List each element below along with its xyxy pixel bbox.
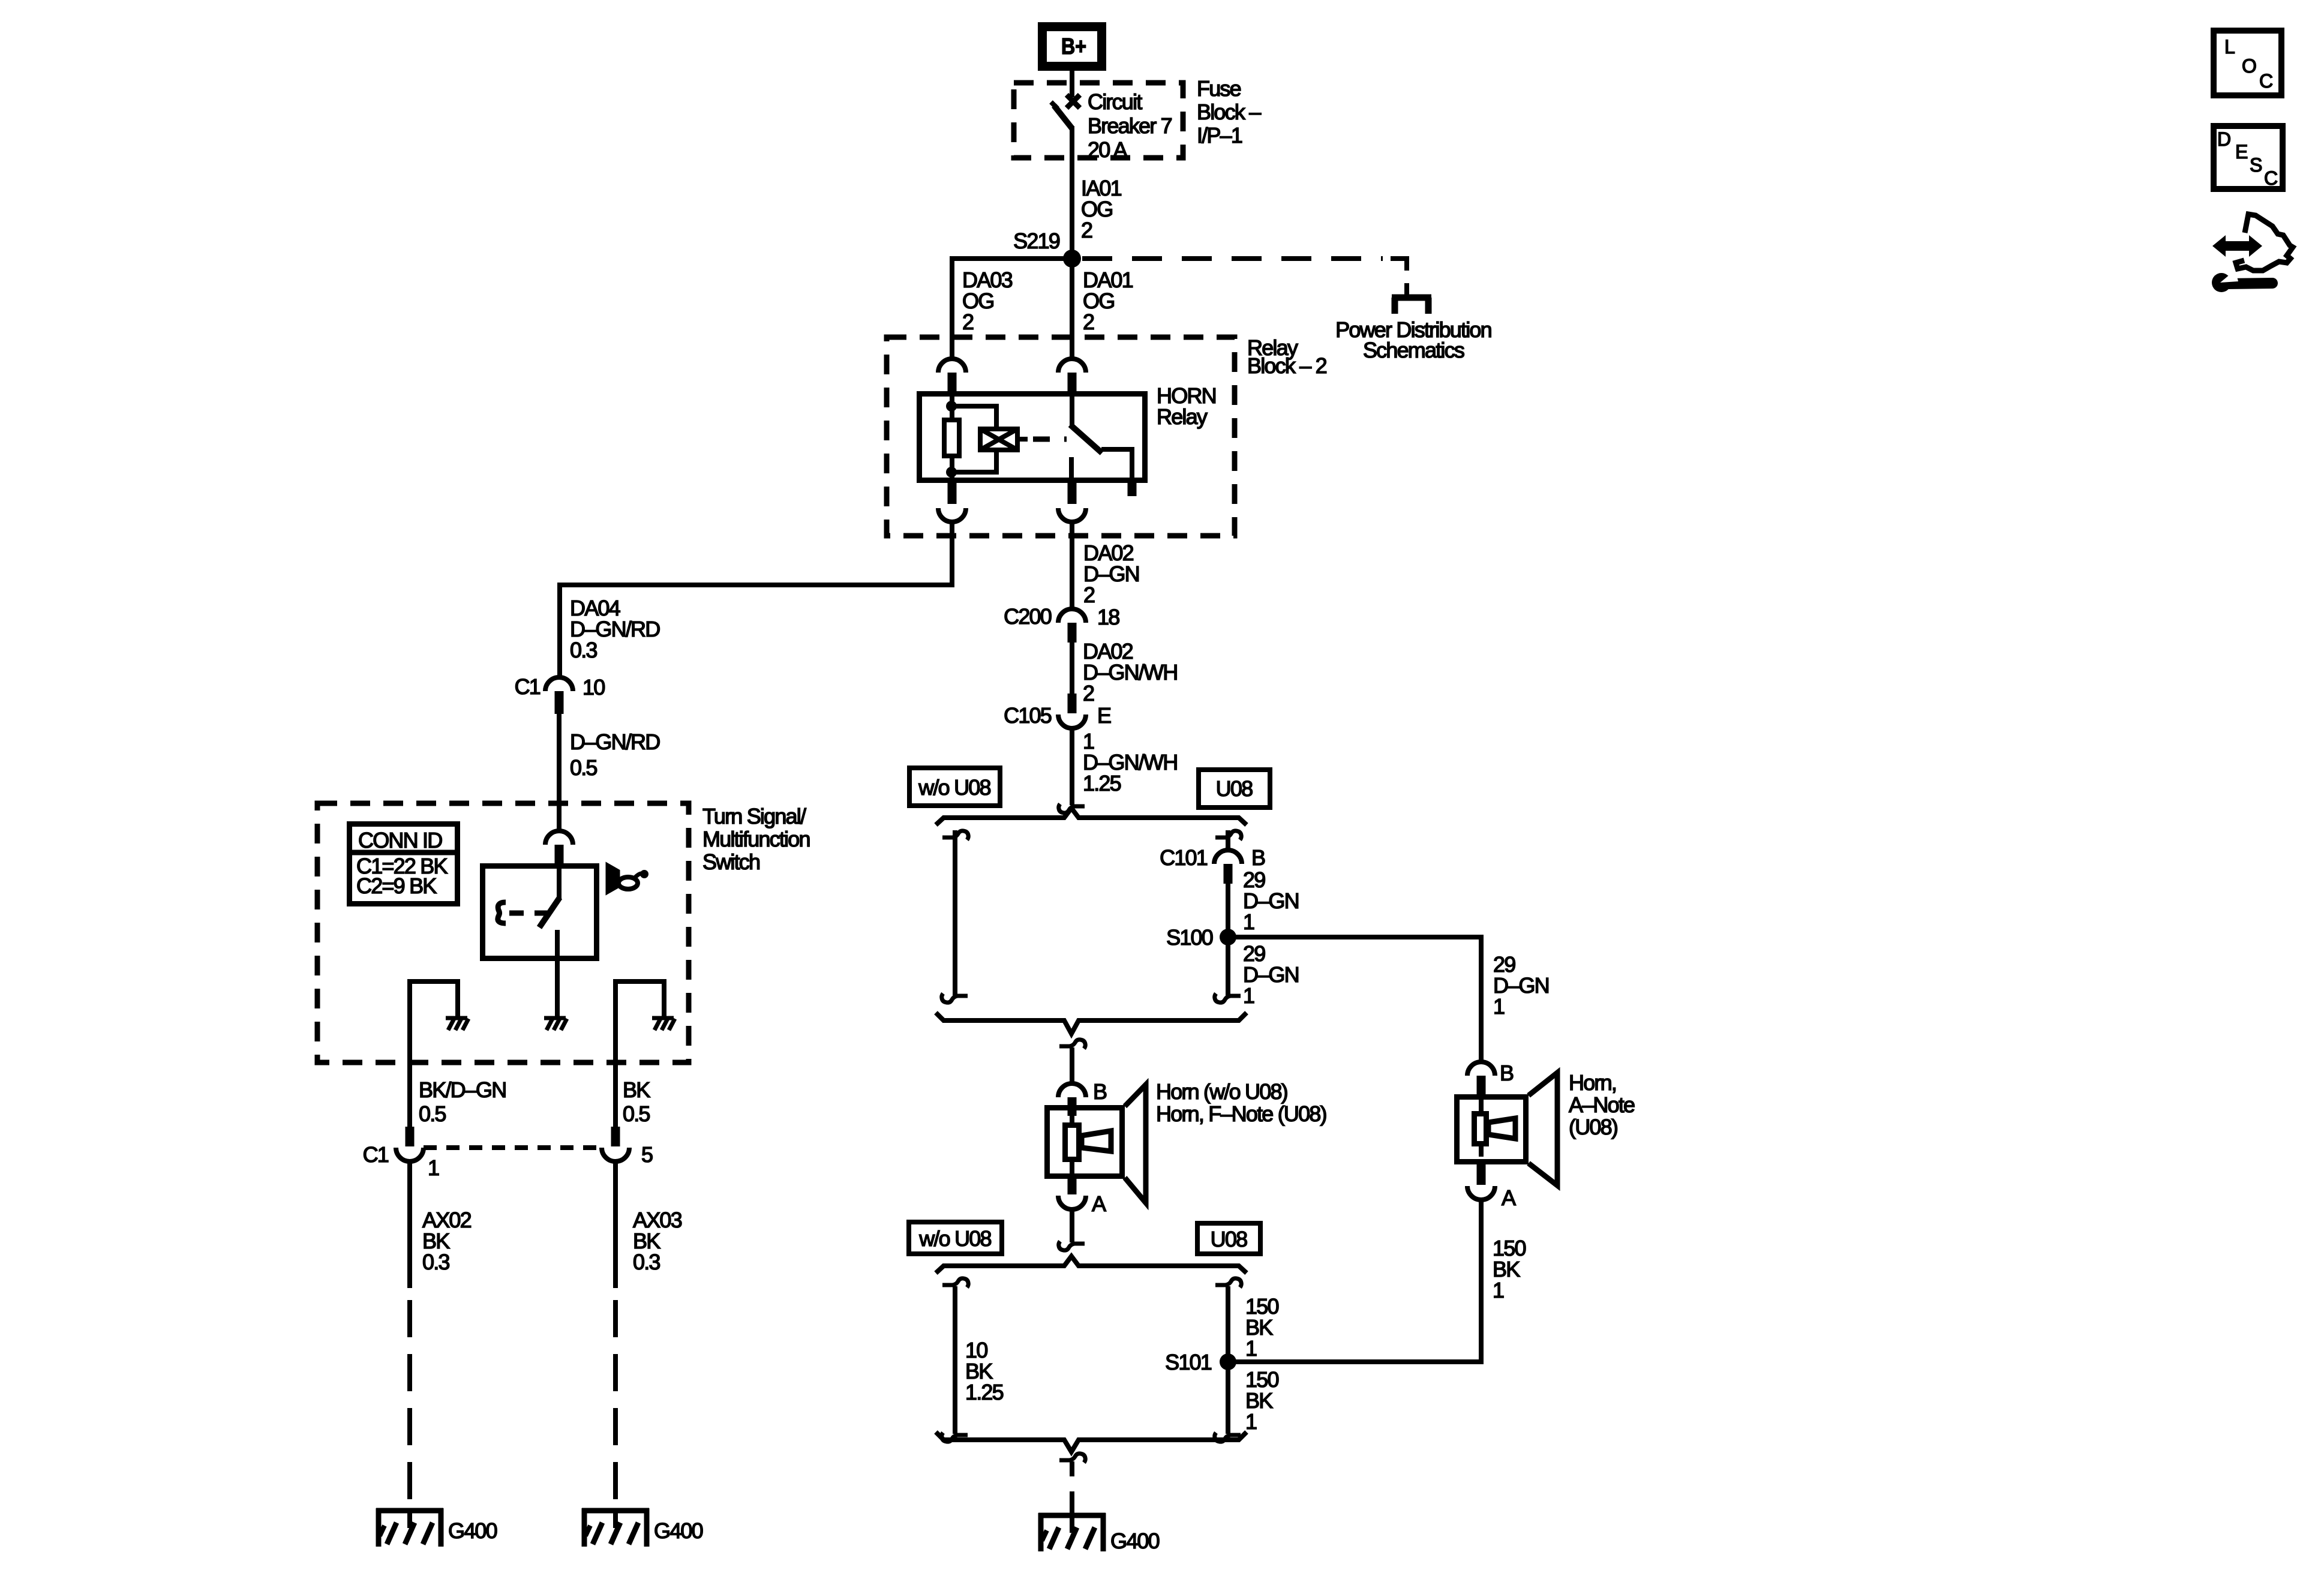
svg-text:BK/D–GN: BK/D–GN: [419, 1077, 506, 1102]
svg-text:1: 1: [1245, 1336, 1257, 1361]
option overbrace lower: [936, 1256, 1247, 1273]
power distribution reference fork: [1392, 298, 1431, 314]
svg-text:C200: C200: [1004, 604, 1052, 629]
service icon wrench: [2212, 270, 2272, 292]
svg-text:A: A: [1502, 1185, 1516, 1210]
wire horn A down: [1070, 1209, 1074, 1242]
internal ground left: [446, 1018, 469, 1030]
splice S101: [1220, 1353, 1236, 1370]
turn signal switch label: [702, 804, 810, 874]
option start curl right lower: [1215, 1278, 1241, 1287]
relay actuating dashed link: [1033, 437, 1067, 442]
power distribution schematics label: [1335, 317, 1491, 362]
option start curl left: [942, 831, 968, 840]
wire S101 down: [1226, 1362, 1230, 1434]
wire end curl: [1059, 804, 1085, 813]
wire S100 to right horn: [1228, 937, 1481, 1062]
wire C200 to C105: [1070, 643, 1074, 696]
svg-text:2: 2: [962, 310, 974, 334]
connector C105 pin E: [1004, 694, 1111, 728]
circuit breaker value label: [1088, 89, 1172, 162]
dashed connector link C1: [424, 1145, 602, 1150]
connector C1 pin 10: [515, 674, 605, 714]
ground G400 center: [1038, 1513, 1106, 1551]
svg-text:1: 1: [1245, 1409, 1257, 1434]
wire switch to internal ground: [555, 959, 560, 1018]
wire label 10 BK 1.25: [965, 1338, 1004, 1404]
wire to G400 center: [1070, 1461, 1074, 1476]
horn A-Note right: [1457, 1073, 1558, 1185]
horn label: [1156, 1079, 1326, 1126]
wire B+ to fuse block: [1070, 69, 1074, 97]
wire label D-GN/RD 0.5: [570, 730, 660, 780]
wire label 29 D-GN 1 upper: [1243, 867, 1299, 934]
svg-text:0.5: 0.5: [419, 1101, 446, 1126]
option end curl left: [942, 993, 968, 1002]
CONN ID table: [349, 824, 458, 904]
option wire 10 BK: [953, 1286, 957, 1434]
relay coil parallel loop: [952, 406, 996, 428]
wire S100 down: [1226, 937, 1230, 996]
svg-text:Breaker 7: Breaker 7: [1088, 113, 1172, 138]
svg-text:S219: S219: [1013, 229, 1060, 253]
svg-text:B+: B+: [1061, 34, 1086, 59]
svg-text:CONN ID: CONN ID: [358, 828, 442, 852]
fuse block dashed box: [1014, 83, 1183, 158]
svg-text:5: 5: [641, 1142, 653, 1167]
svg-text:0.3: 0.3: [633, 1250, 660, 1274]
svg-text:E: E: [1097, 703, 1111, 728]
switch actuator dashed link: [509, 911, 547, 916]
relay switch: [1070, 395, 1132, 481]
svg-text:1.25: 1.25: [1083, 771, 1121, 795]
svg-text:1: 1: [1243, 983, 1254, 1008]
wire label BK/D-GN 0.5: [419, 1077, 506, 1126]
HORN relay box: [920, 394, 1145, 481]
connector horn pin A: [1058, 1179, 1106, 1216]
svg-text:A: A: [1092, 1191, 1106, 1216]
option overbrace upper: [936, 808, 1247, 825]
option underbrace lower: [936, 1432, 1247, 1452]
wire label 29 D-GN 1 right: [1493, 952, 1549, 1019]
svg-text:U08: U08: [1211, 1227, 1247, 1251]
junction dot bottom: [946, 467, 957, 478]
option underbrace upper: [936, 1013, 1247, 1034]
wire label 150 BK 1 right: [1493, 1236, 1526, 1302]
svg-text:S: S: [2250, 154, 2262, 176]
svg-text:G400: G400: [1110, 1529, 1160, 1553]
svg-text:G400: G400: [654, 1518, 703, 1543]
svg-text:1.25: 1.25: [965, 1380, 1004, 1404]
wire to C101: [1226, 830, 1230, 850]
svg-text:D: D: [2217, 128, 2231, 150]
wire label 150 BK 1 lower: [1245, 1367, 1278, 1434]
relay pin 87a stub: [1128, 481, 1137, 496]
switch actuator curly: [498, 902, 506, 923]
option box U08 lower: [1197, 1223, 1260, 1254]
svg-text:20 A: 20 A: [1088, 137, 1128, 162]
relay block 2 dashed box: [887, 337, 1235, 536]
svg-text:C2=9 BK: C2=9 BK: [356, 873, 437, 898]
internal ground center: [544, 1018, 567, 1030]
svg-text:18: 18: [1097, 605, 1119, 629]
wire label DA02 D-GN/WH 2: [1083, 639, 1177, 706]
wire label BK 0.5: [623, 1077, 650, 1126]
svg-text:U08: U08: [1216, 776, 1253, 801]
svg-text:B: B: [1500, 1061, 1514, 1085]
svg-text:Block – 2: Block – 2: [1247, 353, 1327, 378]
connector relay top left: [938, 359, 966, 395]
ground G400 mid: [582, 1508, 649, 1547]
svg-text:C: C: [2259, 70, 2273, 92]
svg-text:1: 1: [1243, 909, 1254, 934]
connector switch top: [545, 831, 573, 866]
svg-text:2: 2: [1083, 681, 1094, 706]
svg-text:(U08): (U08): [1569, 1115, 1617, 1139]
connector relay bottom left: [938, 481, 966, 522]
wire end curl horn A: [1059, 1241, 1085, 1250]
svg-text:O: O: [2242, 55, 2257, 77]
internal ground right: [652, 1018, 675, 1030]
splice S219: [1063, 250, 1081, 268]
wire S219 to DA03 branch: [952, 259, 1072, 360]
junction dot top: [946, 401, 957, 412]
svg-text:Horn,: Horn,: [1569, 1070, 1616, 1095]
wire label IA01 OG 2: [1081, 176, 1122, 242]
relay resistor: [944, 420, 959, 456]
wire label 150 BK 1 upper: [1245, 1294, 1278, 1361]
svg-text:0.5: 0.5: [623, 1101, 650, 1126]
svg-text:B: B: [1093, 1079, 1107, 1104]
svg-text:2: 2: [1083, 583, 1095, 607]
connector C1 pin 5: [602, 1127, 653, 1167]
connector C1 pin 1: [363, 1127, 439, 1180]
svg-text:1: 1: [428, 1155, 439, 1180]
svg-text:L: L: [2224, 36, 2235, 58]
wire S219 down DA01: [1070, 259, 1074, 360]
svg-text:2: 2: [1081, 218, 1092, 242]
splice S100: [1220, 929, 1236, 945]
wire label 29 D-GN 1 lower: [1243, 941, 1299, 1008]
dashed reference wire S219 to power distribution: [1082, 256, 1383, 261]
HORN relay label: [1157, 383, 1216, 429]
option box w/o U08 lower: [909, 1222, 1002, 1254]
horn (w/o U08) / F-Note box: [1047, 1085, 1146, 1203]
wire label DA02 D-GN 2: [1083, 541, 1139, 607]
option box w/o U08 upper: [909, 768, 1000, 806]
wire label 1 D-GN/WH 1.25: [1083, 729, 1177, 795]
svg-text:1: 1: [1493, 1278, 1504, 1302]
DESC reference box: [2214, 126, 2283, 189]
svg-text:C: C: [2264, 167, 2278, 189]
wire relay to C200 DA02: [1070, 521, 1074, 610]
horn switch box: [483, 866, 597, 959]
wire AX02: [407, 1161, 412, 1288]
svg-text:Schematics: Schematics: [1363, 338, 1464, 362]
wire to C1 pin 5: [613, 1065, 618, 1127]
svg-text:Relay: Relay: [1157, 404, 1208, 429]
svg-text:Horn, F–Note (U08): Horn, F–Note (U08): [1156, 1101, 1326, 1126]
svg-text:Fuse: Fuse: [1197, 76, 1241, 101]
svg-text:Turn Signal/: Turn Signal/: [702, 804, 806, 828]
option end curl left lower: [942, 1433, 968, 1442]
wire label DA04 D-GN/RD 0.3: [570, 596, 660, 662]
svg-text:1: 1: [1493, 994, 1505, 1019]
svg-text:I/P–1: I/P–1: [1197, 123, 1242, 148]
svg-text:w/o U08: w/o U08: [918, 1226, 991, 1251]
wire relay to turn signal switch DA04: [560, 521, 952, 679]
switch internal wire right: [615, 981, 664, 1018]
wire C101 to S100: [1226, 884, 1230, 937]
svg-text:S100: S100: [1166, 925, 1213, 950]
wire label AX03 BK 0.3: [633, 1208, 682, 1274]
wire label AX02 BK 0.3: [422, 1208, 472, 1274]
svg-text:D–GN/RD: D–GN/RD: [570, 730, 660, 754]
wire to S101: [1226, 1286, 1230, 1362]
wire AX03: [613, 1161, 618, 1288]
svg-text:Block –: Block –: [1197, 100, 1261, 124]
wire C1 to switch: [557, 714, 562, 831]
turn signal multifunction switch dashed box: [317, 803, 689, 1062]
connector right horn pin B: [1467, 1061, 1514, 1095]
option start curl left lower: [942, 1278, 968, 1287]
svg-text:G400: G400: [448, 1518, 497, 1543]
battery feed B+: [1043, 27, 1102, 67]
fuse block label: [1197, 76, 1261, 148]
svg-text:S101: S101: [1165, 1350, 1212, 1374]
wire to horn B: [1070, 1047, 1074, 1083]
connector relay bottom right: [1058, 481, 1086, 522]
svg-text:B: B: [1251, 845, 1265, 870]
merge curl to horn: [1059, 1040, 1085, 1049]
relay coil X-box: [980, 429, 1028, 450]
connector C200 pin 18: [1004, 604, 1119, 643]
svg-text:0.5: 0.5: [570, 755, 597, 780]
svg-text:0.3: 0.3: [570, 638, 597, 662]
wire S101 to right horn ground: [1228, 1200, 1481, 1362]
svg-text:D–GN/WH: D–GN/WH: [1083, 660, 1177, 685]
svg-text:w/o U08: w/o U08: [918, 775, 990, 800]
wire label DA01 OG 2: [1083, 268, 1133, 334]
svg-text:BK: BK: [623, 1077, 650, 1102]
connector horn pin B: [1058, 1079, 1107, 1116]
merge curl to ground: [1059, 1454, 1085, 1463]
horn icon: [606, 863, 648, 894]
svg-text:C101: C101: [1160, 845, 1208, 870]
relay coil wire left: [950, 395, 954, 420]
option wire w/o U08: [953, 830, 957, 996]
service icon arrow: [2212, 214, 2293, 271]
wire resistor to bottom dot: [950, 456, 954, 480]
horn switch contacts: [539, 866, 560, 959]
horn A-Note label: [1569, 1070, 1635, 1139]
connector relay top right: [1058, 359, 1086, 395]
circuit breaker 7: [1051, 95, 1080, 128]
switch internal wire left: [410, 981, 458, 1018]
svg-text:E: E: [2235, 141, 2248, 163]
option box U08 upper: [1199, 770, 1270, 807]
ground G400 left: [376, 1508, 443, 1547]
connector right horn pin A: [1467, 1162, 1516, 1210]
svg-text:10: 10: [582, 675, 605, 700]
svg-text:Circuit: Circuit: [1088, 89, 1142, 114]
svg-text:C1: C1: [363, 1142, 389, 1167]
relay block label: [1247, 335, 1327, 378]
svg-text:Switch: Switch: [702, 849, 759, 874]
svg-text:0.3: 0.3: [422, 1250, 449, 1274]
svg-text:A–Note: A–Note: [1569, 1092, 1635, 1117]
LOC reference box: [2214, 31, 2281, 95]
svg-text:C105: C105: [1004, 703, 1052, 728]
connector C101 pin B: [1160, 845, 1265, 884]
wire C105 down: [1070, 727, 1074, 805]
svg-text:C1: C1: [515, 674, 541, 699]
option end curl right: [1215, 993, 1241, 1002]
wire breaker to S219: [1070, 126, 1074, 259]
option start curl right: [1215, 831, 1241, 840]
wire to C1 pin 1: [407, 1065, 412, 1127]
wire label DA03 OG 2: [962, 268, 1013, 334]
svg-text:Horn (w/o U08): Horn (w/o U08): [1156, 1079, 1287, 1104]
option end curl right lower: [1215, 1433, 1241, 1442]
svg-text:Multifunction: Multifunction: [702, 827, 810, 851]
svg-text:2: 2: [1083, 310, 1094, 334]
